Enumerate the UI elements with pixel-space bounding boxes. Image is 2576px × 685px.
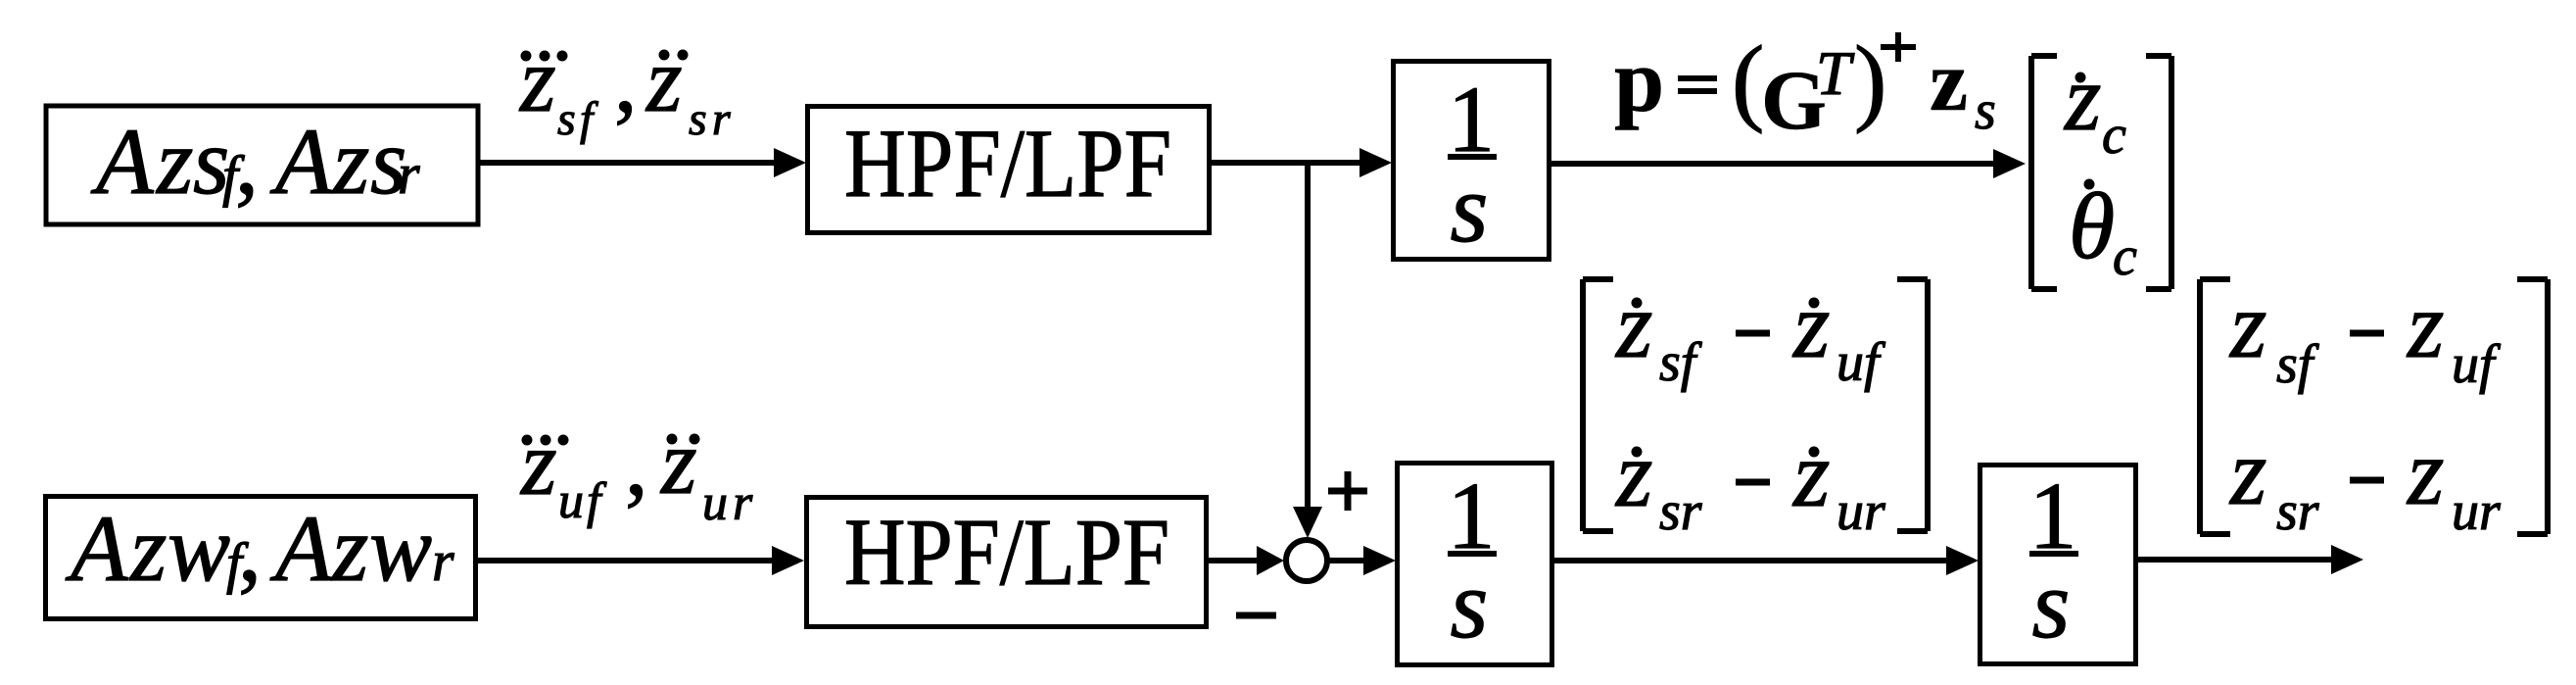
svg-text:u: u <box>702 475 728 531</box>
svg-text:z: z <box>330 496 368 601</box>
block HPF/LPF top <box>808 107 1210 233</box>
arrowhead into summing node from left <box>1257 546 1284 575</box>
arrowhead output <box>2331 545 2363 574</box>
wire summing node to 1/s bottom <box>1329 558 1368 563</box>
svg-text:c: c <box>2102 105 2126 166</box>
block 1/s bottom second <box>1980 465 2136 664</box>
svg-text:r: r <box>398 142 420 206</box>
svg-text:,: , <box>614 29 638 131</box>
label 1/s top <box>1448 67 1497 263</box>
svg-text:HPF/LPF: HPF/LPF <box>844 109 1171 218</box>
block 1/s top <box>1394 62 1550 260</box>
wire HPF/LPF bottom to summing node <box>1209 558 1258 563</box>
svg-text:r: r <box>712 93 731 145</box>
signal label zuf zur <box>519 412 753 531</box>
svg-text:uf: uf <box>2452 334 2502 395</box>
svg-text:T: T <box>1816 38 1855 108</box>
wire second 1/s to output <box>2138 557 2337 563</box>
svg-text:z: z <box>128 496 167 601</box>
matrix zdot differences brackets <box>1583 279 1613 531</box>
arrowhead into 1/s top <box>1360 148 1392 177</box>
svg-text:s: s <box>1975 80 1996 141</box>
svg-text:z: z <box>2406 419 2444 524</box>
svg-text:,: , <box>235 109 259 214</box>
svg-text:z: z <box>2228 419 2266 524</box>
svg-text:z: z <box>2228 272 2266 377</box>
matrix row zsr minus zur plain <box>2228 419 2501 542</box>
svg-text:HPF/LPF: HPF/LPF <box>844 500 1169 605</box>
svg-text:sr: sr <box>1659 481 1702 542</box>
svg-text:z: z <box>519 413 557 514</box>
svg-text:w: w <box>167 496 230 601</box>
matrix zc thetac brackets <box>2031 56 2057 289</box>
svg-text:z: z <box>644 29 683 131</box>
label Azwf, Azwr <box>65 496 454 601</box>
svg-text:): ) <box>1854 25 1886 134</box>
svg-text:z: z <box>2063 45 2101 150</box>
arrowhead into summing node from top <box>1293 507 1322 538</box>
wire 1/s top to zc matrix <box>1551 161 2000 167</box>
svg-text:s: s <box>2032 550 2071 659</box>
arrowhead into 1/s bottom <box>1363 546 1396 575</box>
svg-text:z: z <box>1614 272 1652 377</box>
svg-text:A: A <box>90 109 154 214</box>
matrix z differences brackets <box>2200 279 2230 534</box>
svg-text:(: ( <box>1732 25 1764 134</box>
wire Azw to HPF/LPF bottom <box>478 558 777 563</box>
block 1/s bottom first <box>1398 464 1552 665</box>
formula p equals pseudoinverse GT zs <box>1614 25 1996 147</box>
svg-text:u: u <box>558 473 584 529</box>
svg-text:,: , <box>625 413 648 514</box>
matrix row zsf minus zuf plain <box>2228 272 2502 395</box>
svg-text:c: c <box>2113 226 2137 287</box>
svg-text:ur: ur <box>1837 481 1885 542</box>
svg-text:θ: θ <box>2069 173 2115 278</box>
minus sign at summing junction <box>1236 612 1276 619</box>
svg-text:s: s <box>689 93 707 145</box>
svg-text:ur: ur <box>2452 481 2501 542</box>
svg-text:s: s <box>1451 550 1489 659</box>
matrix entry zc dot <box>2063 45 2126 166</box>
svg-text:r: r <box>432 529 454 593</box>
wire Azs to HPF/LPF top <box>480 160 779 166</box>
svg-text:s: s <box>557 93 576 145</box>
summing junction <box>1286 540 1327 581</box>
svg-text:p: p <box>1614 30 1664 130</box>
svg-text:z: z <box>1791 272 1830 377</box>
svg-text:z: z <box>155 109 193 214</box>
svg-text:z: z <box>518 29 556 131</box>
svg-text:w: w <box>369 496 432 601</box>
svg-text:z: z <box>659 412 697 514</box>
matrix row zsf minus zuf <box>1614 272 1886 393</box>
wire junction down to summing node <box>1305 163 1311 511</box>
svg-text:z: z <box>1614 421 1652 526</box>
svg-text:z: z <box>1930 34 1968 129</box>
svg-text:,: , <box>238 496 262 601</box>
svg-text:A: A <box>65 496 128 601</box>
arrowhead into HPF/LPF top <box>774 148 806 177</box>
label 1/s bottom first <box>1448 464 1498 659</box>
svg-text:z: z <box>2406 272 2444 377</box>
label Azsf, Azsr <box>90 109 420 214</box>
wire 1/s bottom to second 1/s <box>1554 558 1951 563</box>
arrowhead into zc matrix <box>1993 149 2026 178</box>
svg-text:s: s <box>1451 154 1489 263</box>
block Azsf Azsr <box>46 106 478 224</box>
arrowhead into second 1/s <box>1946 546 1979 575</box>
arrowhead into HPF/LPF bottom <box>772 546 804 575</box>
svg-text:z: z <box>331 109 369 214</box>
plus sign at summing junction <box>1236 471 1367 615</box>
block HPF/LPF bottom <box>807 498 1207 627</box>
wire HPF/LPF top to junction and 1/s <box>1212 160 1364 166</box>
matrix row zsr minus zur <box>1614 421 1885 542</box>
svg-text:A: A <box>269 496 333 601</box>
svg-text:A: A <box>269 109 333 214</box>
svg-text:uf: uf <box>1837 332 1886 393</box>
label 1/s bottom second <box>2029 464 2079 659</box>
block Azwf Azwr <box>46 497 476 619</box>
svg-text:sr: sr <box>2276 481 2319 542</box>
matrix entry thetac dot <box>2069 173 2137 287</box>
svg-text:r: r <box>733 475 753 531</box>
signal label zsf zsr <box>518 29 731 145</box>
svg-text:z: z <box>1791 421 1830 526</box>
